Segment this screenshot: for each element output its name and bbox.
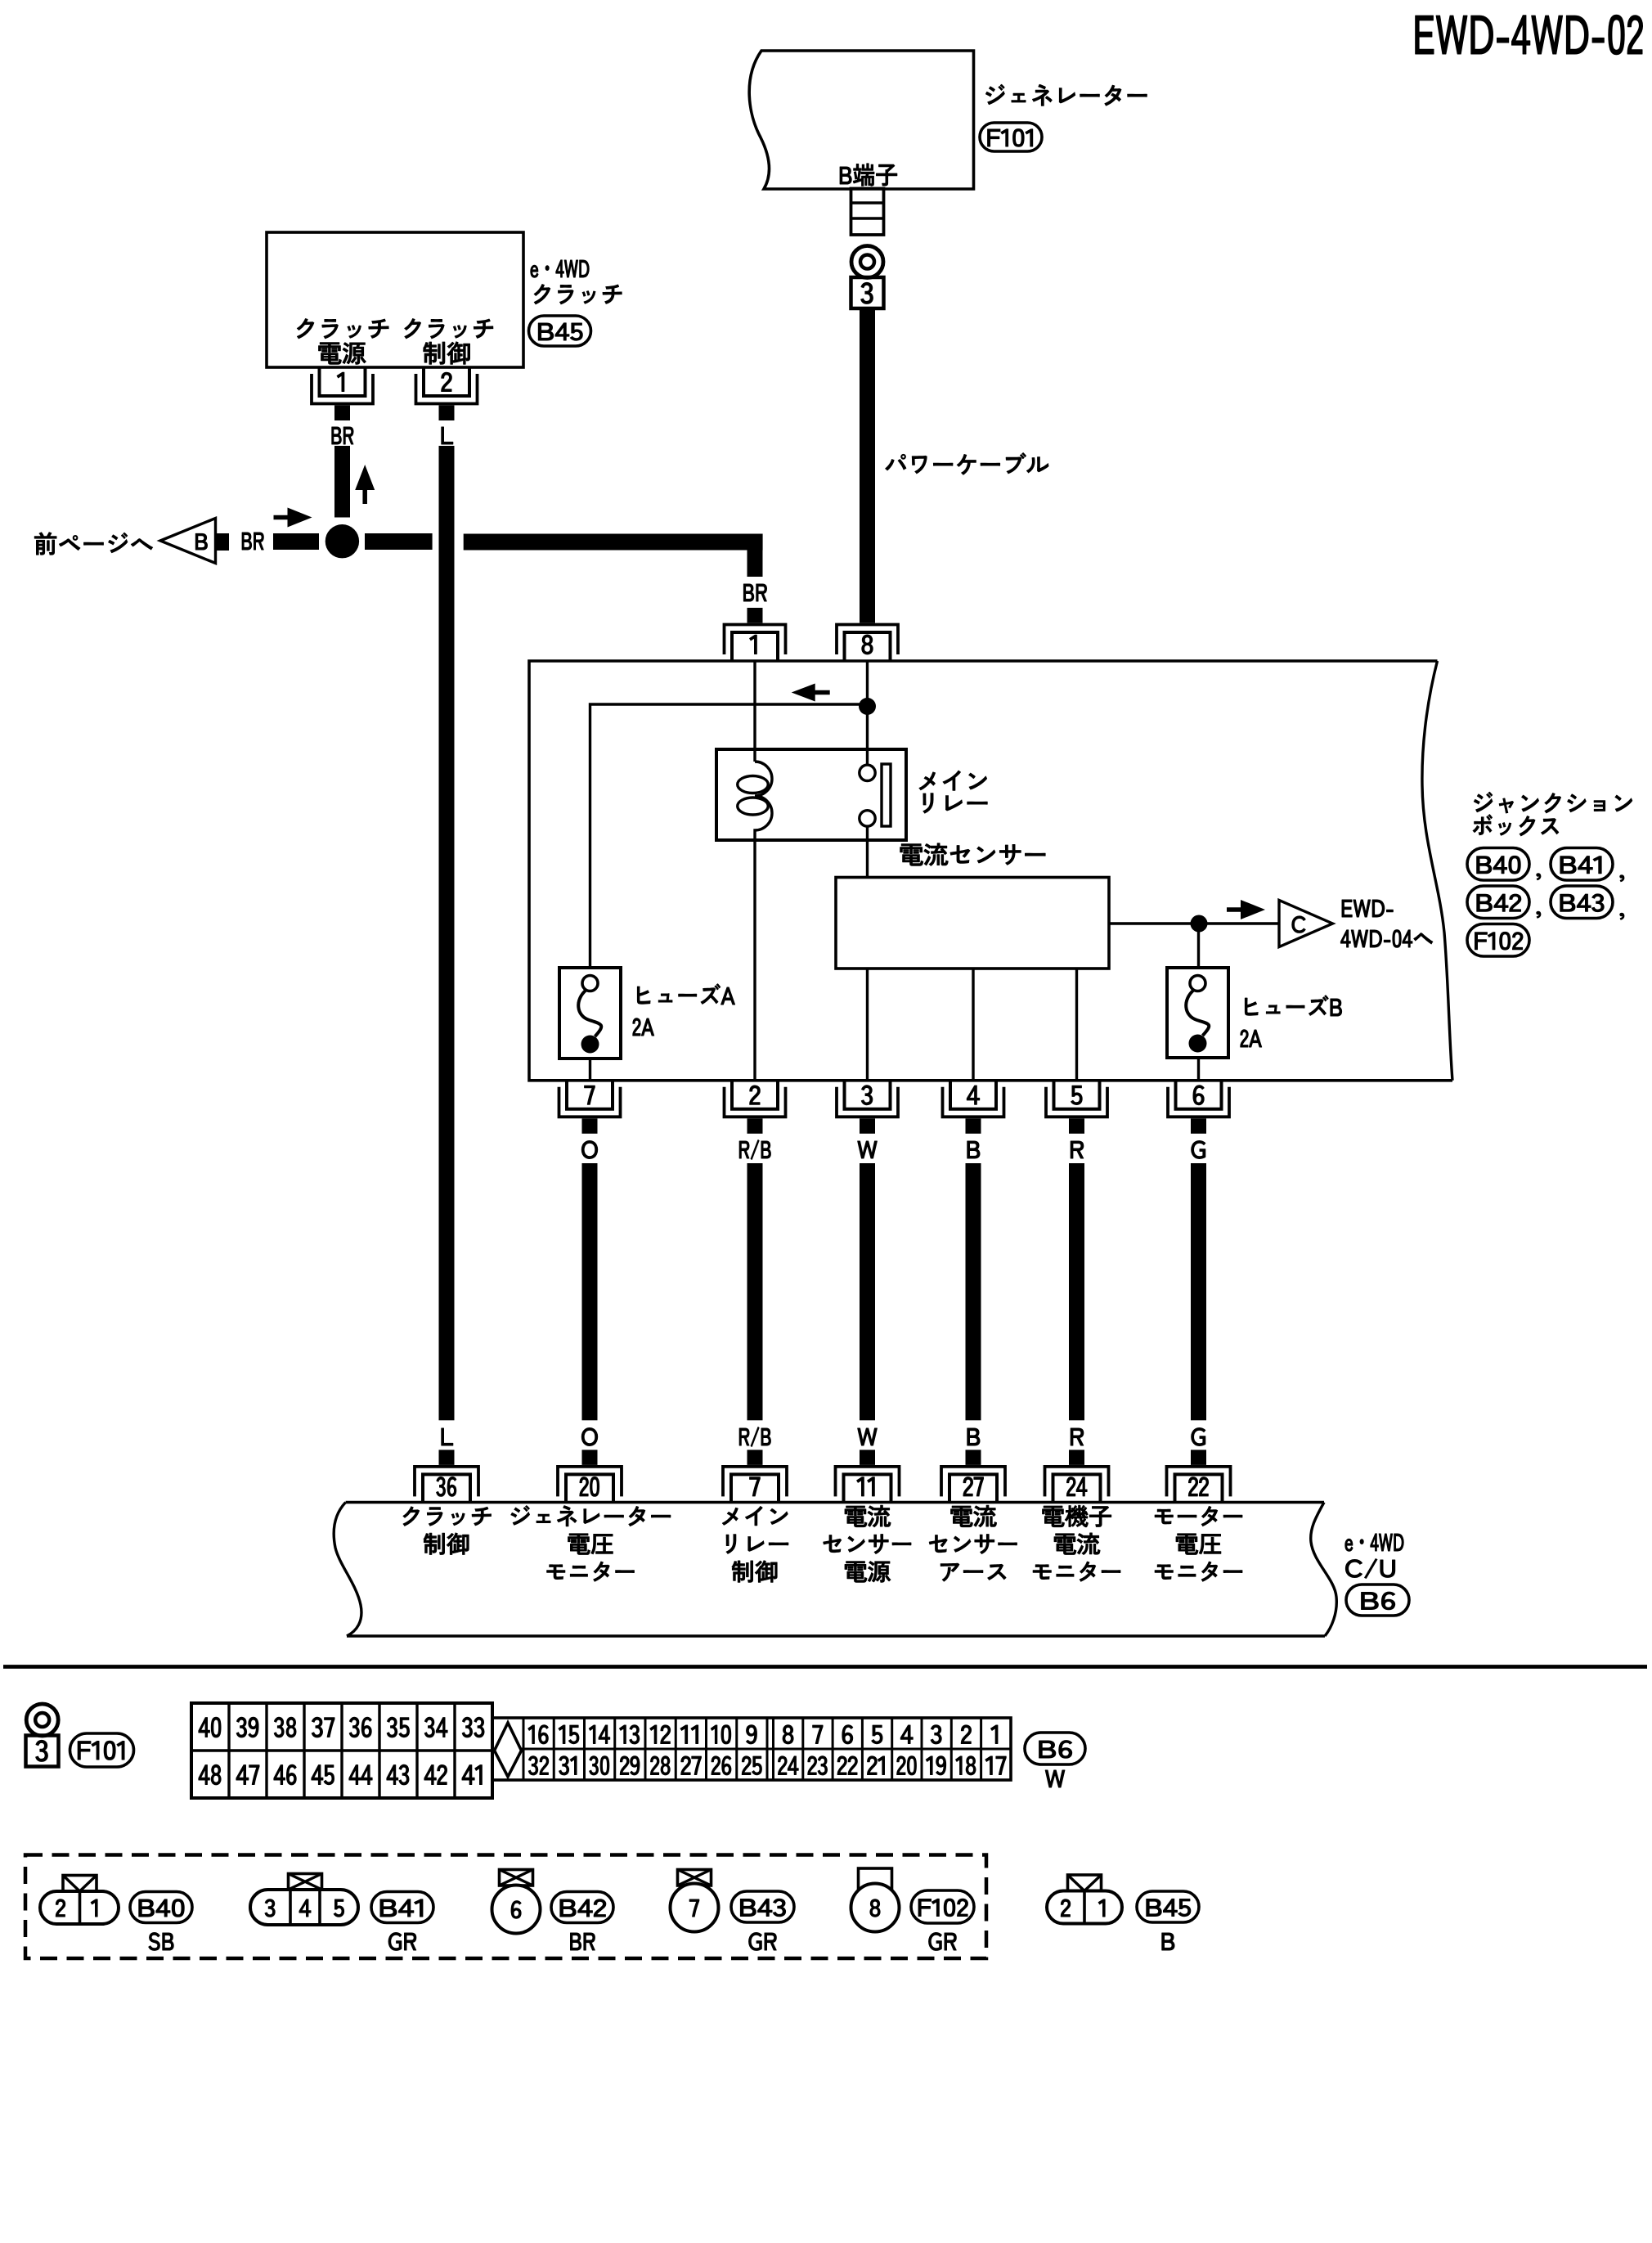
connector B42 label (1467, 886, 1541, 919)
terminal armature current monitor (1033, 1505, 1120, 1581)
off-page triangle B to previous page (160, 519, 216, 564)
label EWD-4WD-04 (1340, 900, 1432, 947)
terminal generator voltage monitor (511, 1506, 671, 1582)
title EWD-4WD-02 (1416, 15, 1643, 54)
connector B41 label (1551, 848, 1624, 882)
label B terminal (840, 164, 897, 186)
junction pin 1 (725, 608, 786, 661)
label wire O above control unit (581, 1428, 597, 1446)
arrow left above relay (792, 684, 830, 702)
wire fuse B to pin 6 (1197, 1058, 1200, 1081)
label wire W below junction (858, 1141, 878, 1158)
label wire W above control unit (858, 1428, 878, 1445)
label color W (1045, 1770, 1065, 1787)
label main relay (919, 771, 987, 813)
wire power cable (860, 308, 875, 609)
e-4WD control unit box (334, 1503, 1336, 1637)
e-4WD clutch box (267, 232, 523, 367)
connector 3 box (851, 277, 884, 308)
label e-4WD control unit (1345, 1534, 1403, 1579)
control unit pin 20 (558, 1450, 622, 1503)
junction dot BR (325, 524, 359, 558)
label generator (986, 84, 1147, 106)
connector F102 label detail (911, 1890, 974, 1923)
label wire O below junction (581, 1141, 597, 1159)
junction box outline (529, 661, 1452, 1081)
control unit pin 11 (836, 1450, 900, 1503)
junction pin 5 (1046, 1081, 1107, 1134)
connector B43 label (1551, 886, 1624, 919)
label wire BR (332, 427, 353, 444)
wire G to control unit (1191, 1163, 1206, 1420)
section separator line (3, 1665, 1647, 1669)
junction pin 3 (837, 1081, 898, 1134)
junction connector dashed box (25, 1855, 986, 1959)
label wire R above control unit (1071, 1428, 1084, 1445)
connector B45 label detail (1137, 1891, 1199, 1922)
junction pin 4 (943, 1081, 1004, 1134)
control unit pin 24 (1045, 1450, 1109, 1503)
label color GR F102 (929, 1933, 957, 1951)
wire pin1 to relay coil (753, 661, 756, 762)
connector B6 pin grid right strip (492, 1718, 1011, 1780)
label wire G above control unit (1192, 1428, 1205, 1446)
label color B B45 (1162, 1933, 1174, 1950)
main relay box (716, 749, 906, 840)
junction pin 6 (1168, 1081, 1229, 1134)
wire relay coil to junction pin 2 (753, 840, 756, 1081)
junction pin 8 (837, 608, 898, 661)
stub at triangle (216, 533, 230, 551)
label wire L above control unit (442, 1428, 453, 1445)
current sensor box (836, 878, 1109, 969)
label current sensor (900, 843, 1045, 865)
junction dot sensor output (1191, 915, 1208, 933)
junction pin 2 (725, 1081, 786, 1134)
wire dot to fuse A (590, 704, 868, 968)
wire R to control unit (1069, 1163, 1084, 1420)
connector F102 pin (851, 1868, 900, 1932)
control unit pin 7 (723, 1450, 787, 1503)
label clutch control (405, 319, 493, 365)
terminal current sensor power (824, 1505, 911, 1582)
wire BR horizontal left segment (273, 533, 433, 550)
label wire L (442, 427, 453, 444)
control unit pin 22 (1167, 1450, 1231, 1503)
label wire G below junction (1192, 1141, 1205, 1159)
label wire BR above junction pin 1 (743, 584, 766, 601)
label to previous page (34, 533, 152, 555)
connector F101 label detail (70, 1733, 134, 1767)
connector B6 label detail (1025, 1733, 1085, 1764)
connector B40 label (1467, 848, 1541, 881)
label e-4WD (531, 260, 589, 277)
connector B40 pins (40, 1876, 119, 1925)
relay coil (738, 762, 772, 840)
generator B-terminal block (851, 189, 884, 236)
connector B45 pins (1047, 1875, 1122, 1924)
control unit pin 27 (941, 1450, 1005, 1503)
label wire R-B below junction (739, 1140, 770, 1160)
junction pin 7 (559, 1081, 621, 1134)
label fuse B (1241, 996, 1342, 1047)
label color SB (149, 1933, 173, 1951)
label power cable (886, 453, 1048, 475)
wire dot to fuse B (1197, 924, 1200, 968)
label clutch (534, 285, 622, 304)
terminal main relay control (722, 1507, 788, 1583)
terminal motor voltage monitor (1155, 1507, 1242, 1582)
off-page triangle C to EWD-4WD-04 (1279, 901, 1333, 947)
connector B42 pin (492, 1870, 541, 1934)
connector B6 pin grid left block (191, 1703, 492, 1798)
connector B41 label detail (371, 1892, 433, 1923)
label wire B above control unit (967, 1428, 980, 1445)
label wire R below junction (1071, 1141, 1084, 1158)
wire L vertical from clutch pin 2 to control unit (439, 446, 455, 1420)
wire BR up branch to clutch pin 1 (334, 446, 350, 518)
fuse B (1167, 968, 1228, 1058)
wire sensor output (1109, 922, 1279, 924)
label wire BR at triangle (242, 533, 263, 550)
wire fuse A to pin 7 (589, 1059, 591, 1081)
wire relay contact to current sensor (866, 826, 869, 878)
connector B43 label detail (731, 1891, 794, 1922)
wire B to control unit (966, 1163, 981, 1420)
connector B40 label detail (130, 1892, 192, 1923)
label color BR B42 (571, 1933, 595, 1950)
control unit pin 36 (415, 1450, 478, 1503)
wire BR down branch to junction box pin 1 (747, 534, 763, 578)
sensor pin wires to pins 3 4 5 (868, 969, 1077, 1081)
wire W to control unit (860, 1163, 875, 1420)
wire O to control unit (582, 1163, 598, 1420)
label color GR B43 (749, 1933, 777, 1951)
label clutch power (297, 319, 388, 365)
label wire R-B above control unit (739, 1427, 770, 1447)
connector F101 label (980, 123, 1042, 151)
wire R-B to control unit (747, 1163, 763, 1420)
wire BR horizontal right segment (464, 534, 763, 551)
grid notch diamond (495, 1723, 522, 1777)
terminal current sensor ground (929, 1505, 1017, 1581)
relay contact (860, 764, 891, 826)
label junction box (1473, 792, 1632, 836)
clutch pin 2 (416, 367, 478, 420)
connector B43 pin (671, 1870, 719, 1932)
terminal clutch control (403, 1507, 491, 1555)
ring terminal 3 detail (26, 1704, 58, 1736)
label color GR B41 (388, 1933, 416, 1951)
arrow up at clutch branch (355, 465, 375, 504)
fuse A (559, 968, 621, 1059)
connector B41 pins (250, 1874, 358, 1926)
connector B6 label (1346, 1584, 1409, 1616)
arrow right sensor output (1227, 900, 1265, 919)
wire pin8 to relay contact (866, 661, 869, 765)
connector B42 label detail (551, 1892, 613, 1923)
ring terminal 3 (851, 246, 883, 278)
generator F101 box (749, 51, 973, 189)
arrow right toward junction dot (274, 508, 312, 528)
connector F102 label (1467, 924, 1529, 957)
clutch pin 1 (312, 367, 373, 420)
label fuse A (633, 984, 735, 1036)
junction dot pin8 branch (859, 698, 876, 715)
connector B45 label (529, 316, 591, 346)
label wire B below junction (967, 1141, 980, 1158)
connector 3 box detail (26, 1736, 59, 1767)
